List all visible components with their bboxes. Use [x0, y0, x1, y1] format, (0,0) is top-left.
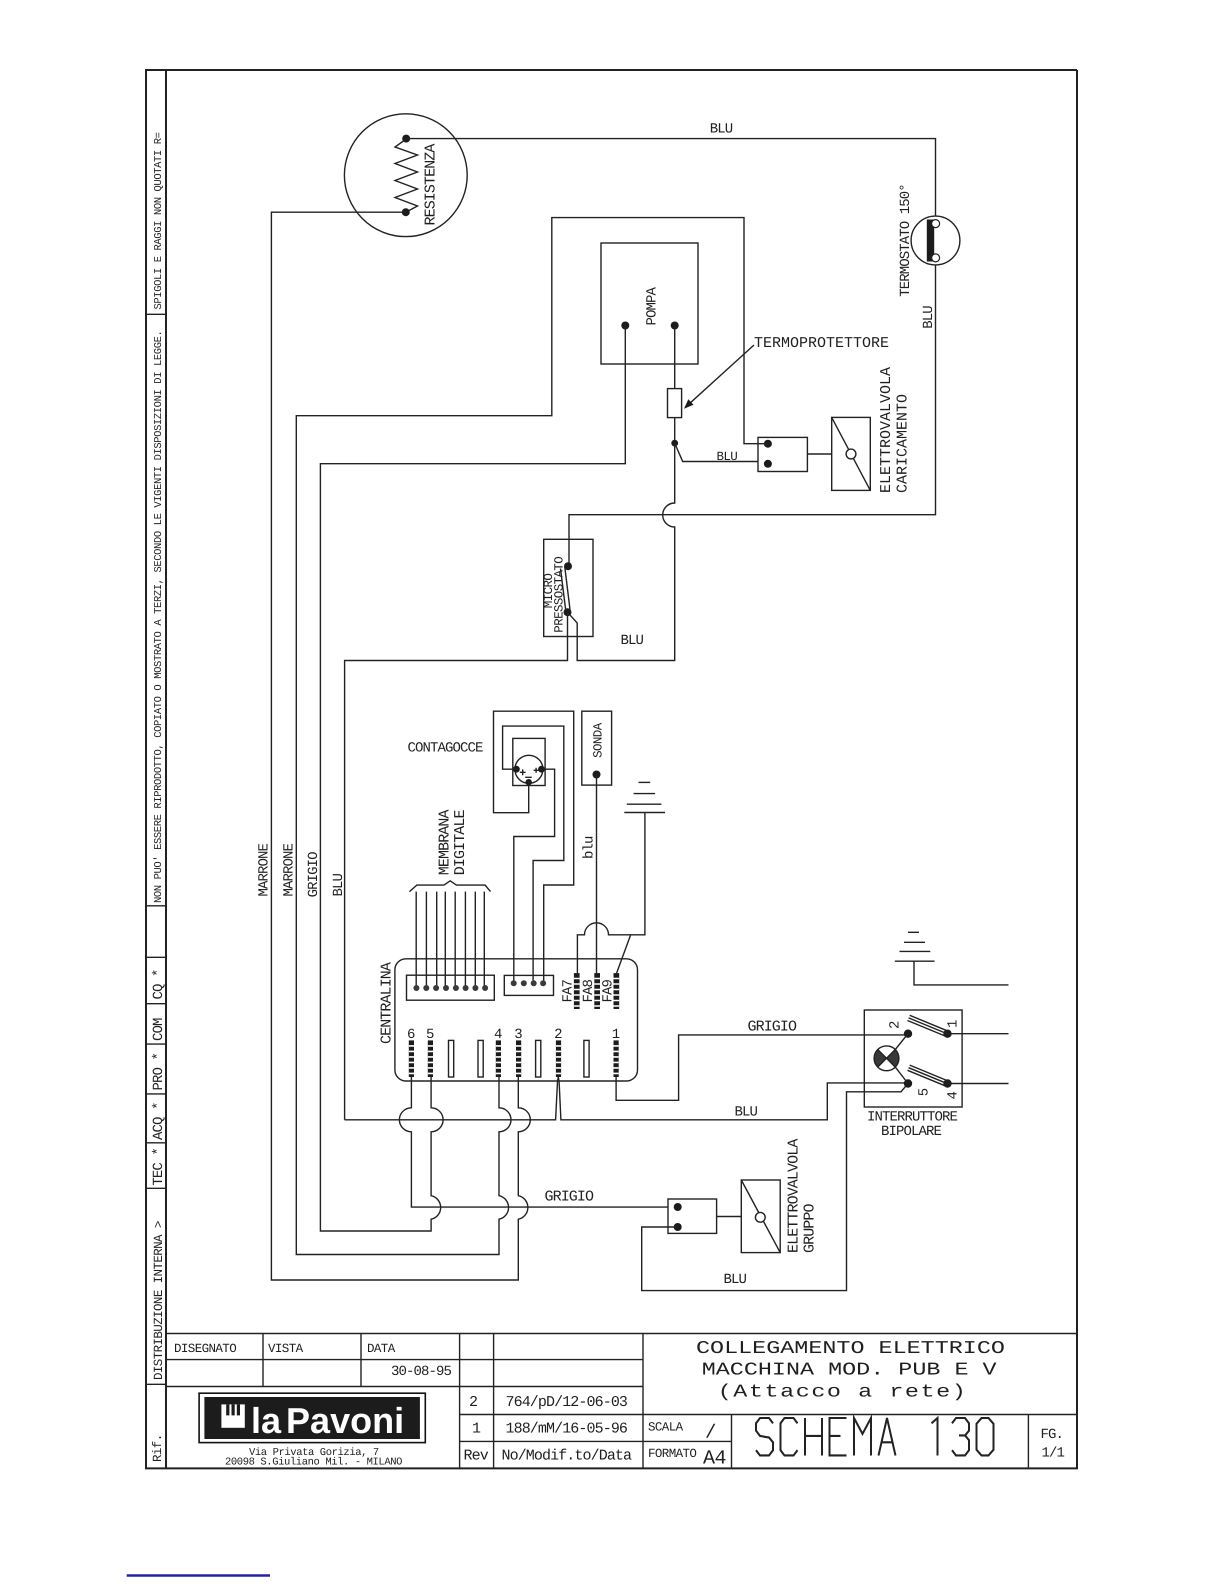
caricamento connector bottom pin dot [764, 460, 772, 468]
pressostato lever double line [561, 567, 571, 611]
caricamento connector top pin dot [764, 440, 772, 448]
svg-text:ELETTROVALVOLA: ELETTROVALVOLA [786, 1139, 803, 1253]
thermostat TERMOSTATO 150 circle [911, 216, 960, 265]
svg-text:2: 2 [888, 1021, 904, 1029]
mains stub from interruttore pin1 [948, 1033, 1009, 1035]
wire GRIGIO line2: centralina pin6 to EV gruppo connector [399, 1077, 668, 1207]
wire: gruppo connector to EV gruppo coil [717, 1216, 742, 1218]
svg-text:DATA: DATA [367, 1342, 396, 1356]
leader arrow for termoprotettore [686, 345, 755, 407]
svg-text:No/Modif.to/Data: No/Modif.to/Data [502, 1448, 633, 1465]
wire BLU bus line1 left part into pin2 [345, 1077, 559, 1120]
svg-text:20098 S.Giuliano Mil. - MILANO: 20098 S.Giuliano Mil. - MILANO [225, 1457, 402, 1469]
wire: contagocce left pin to 4pin connector pin3 [503, 726, 564, 983]
svg-text:PRO *: PRO * [151, 1053, 167, 1091]
svg-text:TERMOSTATO 150°: TERMOSTATO 150° [898, 184, 914, 297]
resistenza top terminal dot [402, 135, 410, 143]
svg-text:6: 6 [407, 1027, 415, 1043]
svg-text:TERMOPROTETTORE: TERMOPROTETTORE [754, 335, 889, 352]
wire: pompa right dot to termoprotettore [674, 326, 676, 389]
wire BLU: gruppo connector bottom pin to interruttore pin5 [642, 1084, 908, 1291]
svg-text:DISTRIBUZIONE INTERNA >: DISTRIBUZIONE INTERNA > [152, 1221, 166, 1380]
interruttore pin 4 dot [943, 1079, 951, 1087]
svg-text:FORMATO: FORMATO [648, 1447, 696, 1461]
svg-text:A4: A4 [703, 1448, 726, 1471]
svg-text:DISEGNATO: DISEGNATO [174, 1342, 236, 1356]
border right [1076, 70, 1078, 1468]
svg-text:COLLEGAMENTO ELETTRICO: COLLEGAMENTO ELETTRICO [696, 1339, 1005, 1359]
svg-text:BLU: BLU [621, 633, 644, 649]
svg-text:GRUPPO: GRUPPO [802, 1203, 819, 1253]
contagocce plus marks and minus mark [520, 768, 539, 778]
svg-text:BLU: BLU [710, 122, 733, 138]
svg-text:CENTRALINA: CENTRALINA [379, 962, 396, 1044]
centralina spare pin bar d [584, 1040, 589, 1077]
svg-text:GRIGIO: GRIGIO [545, 1189, 595, 1206]
svg-text:DIGITALE: DIGITALE [452, 809, 469, 875]
svg-text:COM: COM [151, 1018, 167, 1041]
pompa right terminal dot [671, 322, 679, 330]
svg-text:ACQ *: ACQ * [151, 1102, 167, 1140]
ground symbol near sonda [624, 782, 665, 812]
svg-text:ELETTROVALVOLA: ELETTROVALVOLA [878, 367, 895, 493]
interruttore pin 2 dot [904, 1030, 912, 1038]
border bottom [145, 1467, 1078, 1469]
svg-text:4: 4 [494, 1027, 502, 1043]
svg-text:CARICAMENTO: CARICAMENTO [895, 394, 912, 493]
pump POMPA box [601, 243, 698, 364]
svg-text:RESISTENZA: RESISTENZA [423, 144, 440, 226]
svg-text:MARRONE: MARRONE [282, 843, 298, 896]
resistenza bottom terminal dot [402, 208, 410, 216]
svg-text:2: 2 [554, 1027, 562, 1043]
gruppo connector bottom pin dot [674, 1223, 682, 1231]
svg-text:Rif.: Rif. [151, 1434, 165, 1462]
pressostato top contact dot [564, 562, 572, 570]
svg-text:1: 1 [472, 1420, 481, 1437]
contagocce left pin dot [513, 766, 520, 773]
wire GRIGIO: pompa left dot to centralina pin5 [320, 326, 625, 1232]
title block grid lines [166, 1334, 1077, 1469]
centralina 4-pin connector [504, 975, 553, 995]
resistor RESISTENZA zigzag element [395, 139, 418, 212]
wire MARRONE: resistenza bottom to centralina pin3 [271, 212, 530, 1280]
wire ground to FA7 with hop over sonda wire [577, 813, 645, 974]
svg-text:SCALA: SCALA [648, 1421, 684, 1435]
svg-text:GRIGIO: GRIGIO [748, 1019, 798, 1036]
sonda terminal dot [593, 771, 601, 779]
svg-text:BLU: BLU [735, 1105, 758, 1121]
svg-text:PRESSOSTATO: PRESSOSTATO [553, 557, 567, 633]
centralina pin 5 bar [428, 1040, 433, 1077]
wire ground branch diagonal to FA9 [617, 935, 631, 973]
centralina spare pin bar a [449, 1040, 454, 1077]
wire GRIGIO: centralina pin1 to interruttore pin2 [616, 1035, 908, 1100]
solenoid valve ELETTROVALVOLA GRUPPO symbol [741, 1180, 780, 1253]
svg-text:MEMBRANA: MEMBRANA [437, 809, 454, 875]
border outer left line [145, 70, 147, 1468]
centralina pin 4 bar [496, 1040, 501, 1077]
fuse FA9 bar [614, 973, 620, 1009]
svg-text:2: 2 [469, 1394, 477, 1411]
svg-text:BLU: BLU [331, 873, 347, 896]
svg-text:MACCHINA MOD. PUB E V: MACCHINA MOD. PUB E V [702, 1361, 997, 1381]
svg-text:VISTA: VISTA [268, 1342, 304, 1356]
svg-text:(Attacco a rete): (Attacco a rete) [718, 1383, 968, 1403]
wire: termoprotettore to junction [674, 418, 676, 444]
border inner left line [165, 70, 167, 1468]
mains stub from interruttore pin4 [948, 1083, 1009, 1085]
la Pavoni logo [199, 1393, 425, 1442]
lamp lead to pin5 [895, 1067, 908, 1083]
lamp lead to pin2 [895, 1034, 908, 1050]
wire: contagocce bottom pin to 4pin connector pin4 [494, 711, 574, 983]
interruttore pin 5 dot [904, 1079, 912, 1087]
svg-text:BLU: BLU [724, 1272, 747, 1288]
LEFTSTRIP [146, 132, 167, 1462]
switch INTERRUTTORE BIPOLARE box [864, 1010, 962, 1107]
contagocce circle [515, 755, 543, 783]
svg-text:FA7: FA7 [560, 979, 576, 1002]
strip divider lines [146, 314, 166, 1384]
centralina pin 6 bar [409, 1040, 414, 1077]
svg-text:30-08-95: 30-08-95 [391, 1364, 452, 1380]
svg-text:GRIGIO: GRIGIO [306, 852, 322, 898]
interruttore top contact bar [908, 1015, 949, 1036]
centralina pin 2 bar [556, 1040, 561, 1077]
wire BLU: junction to EV caricamento connector lower pin [675, 443, 758, 461]
centralina pin 1 bar [614, 1040, 619, 1077]
wire: junction down, hop over blu line, to pressostato bottom return [568, 443, 675, 660]
wire MARRONE loop: caricamento top pin around pompa to centralina pin4 [296, 218, 768, 1255]
svg-text:SPIGOLI E RAGGI NON QUOTATI R=: SPIGOLI E RAGGI NON QUOTATI R= [153, 132, 165, 309]
control unit CENTRALINA box [395, 959, 638, 1081]
TITLEBLOCK [127, 1334, 1077, 1576]
micro switch MICRO PRESSOSTATO box [544, 539, 593, 636]
probe SONDA box [582, 711, 612, 785]
centralina 8-pin connector [407, 975, 495, 1000]
svg-text:BLU: BLU [717, 450, 738, 464]
centralina pin 3 bar [516, 1040, 521, 1077]
wire BLU: termostato down to pressostato horizontal [569, 265, 936, 566]
pressostato bottom contact dot [564, 608, 572, 616]
svg-text:3: 3 [514, 1027, 522, 1043]
fuse FA8 bar [594, 973, 600, 1009]
pompa left terminal dot [621, 322, 629, 330]
thermostat top pin circle [932, 220, 940, 228]
interruttore pin 1 dot [943, 1030, 951, 1038]
wire: contagocce right pin to 4pin connector pin1 [514, 769, 555, 983]
contagocce body box [513, 738, 545, 785]
thermostat bottom pin circle [932, 254, 940, 262]
wire BLU bus line1 right part from pin2 to interruttore pin5 [558, 1077, 908, 1120]
svg-text:188/mM/16-05-96: 188/mM/16-05-96 [506, 1420, 628, 1437]
wire: connector to EV caricamento coil [807, 453, 831, 455]
svg-text:5: 5 [426, 1027, 434, 1043]
svg-text:1: 1 [612, 1027, 620, 1043]
connector EV gruppo 2-pin box [668, 1199, 717, 1233]
thermal fuse TERMOPROTETTORE body [668, 389, 682, 418]
digital membrane brace [410, 881, 491, 892]
schema number [756, 1418, 994, 1455]
fuse FA7 bar [574, 973, 580, 1009]
svg-text:Rev: Rev [464, 1448, 489, 1465]
svg-text:blu: blu [582, 836, 598, 859]
ground symbol near interruttore [895, 932, 935, 961]
svg-text:FA9: FA9 [600, 979, 616, 1002]
svg-text:FA8: FA8 [581, 979, 597, 1002]
connector EV caricamento 2-pin box [758, 437, 807, 471]
thermostat element black bar [927, 220, 934, 262]
svg-text:BIPOLARE: BIPOLARE [881, 1124, 942, 1140]
svg-text:CQ *: CQ * [151, 969, 167, 999]
interruttore bottom contact bar [908, 1065, 949, 1086]
contagocce right pin dot [538, 766, 545, 773]
junction node below termoprotettore [671, 440, 678, 447]
svg-text:NON PUO' ESSERE RIPRODOTTO, CO: NON PUO' ESSERE RIPRODOTTO, COPIATO O MO… [153, 331, 165, 903]
svg-text:SONDA: SONDA [591, 722, 605, 758]
wire BLU: pressostato bottom dot to left bus [345, 612, 568, 1120]
lamp symbol inside interruttore [874, 1046, 899, 1071]
gruppo connector top pin dot [674, 1203, 682, 1211]
contagocce bottom pin dot [526, 779, 532, 785]
svg-text:CONTAGOCCE: CONTAGOCCE [408, 741, 484, 757]
resistor RESISTENZA enclosure circle [344, 114, 467, 237]
centralina spare pin bar c [536, 1040, 541, 1077]
wire blu: sonda down to FA8 [596, 775, 598, 974]
svg-text:TEC *: TEC * [151, 1148, 167, 1186]
membrane ribbon wires 8x [416, 892, 484, 988]
svg-text:POMPA: POMPA [645, 286, 661, 325]
svg-text:MARRONE: MARRONE [257, 843, 273, 896]
svg-text:FG.: FG. [1041, 1427, 1064, 1443]
svg-text:1/1: 1/1 [1042, 1446, 1065, 1462]
wire BLU: resistenza top to termostato [406, 139, 935, 217]
svg-text:laPavoni: laPavoni [251, 1400, 404, 1441]
svg-text:4: 4 [946, 1092, 962, 1100]
svg-text:764/pD/12-06-03: 764/pD/12-06-03 [506, 1394, 628, 1411]
solenoid valve ELETTROVALVOLA CARICAMENTO symbol [832, 417, 871, 490]
svg-text:1: 1 [945, 1020, 961, 1028]
centralina spare pin bar b [478, 1040, 483, 1077]
svg-text:5: 5 [916, 1088, 932, 1096]
border top [145, 69, 1077, 71]
wire ground to mains stub [914, 961, 1009, 985]
bottom blue underline artifact [127, 1574, 270, 1576]
svg-text:BLU: BLU [921, 306, 937, 329]
svg-text:/: / [705, 1422, 716, 1444]
